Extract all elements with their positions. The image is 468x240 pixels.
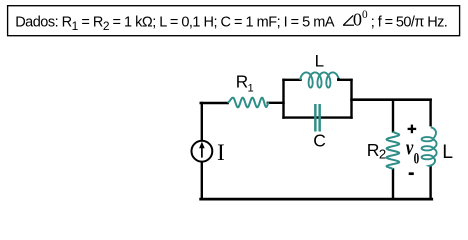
svg-text:L: L — [442, 141, 453, 163]
inductor L top coil — [300, 72, 339, 87]
wire R1 to box — [268, 102, 284, 104]
svg-text:L: L — [315, 52, 324, 71]
svg-text:Dados: R1 = R2 = 1 kΩ; L = 0,1: Dados: R1 = R2 = 1 kΩ; L = 0,1 H; C = 1 … — [15, 15, 335, 33]
svg-text:; f = 50/π Hz.: ; f = 50/π Hz. — [371, 15, 447, 31]
LC box bottom edge right segment — [321, 116, 352, 118]
capacitor C left plate — [314, 104, 317, 132]
wire box to right branch — [352, 98, 431, 101]
wire right branch top — [429, 100, 431, 126]
LC box left edge — [282, 80, 284, 118]
current source arrow — [201, 146, 203, 158]
svg-text:R1: R1 — [236, 71, 254, 94]
current source I circle — [192, 141, 213, 162]
angle symbol — [343, 15, 354, 25]
resistor R2 zigzag — [387, 132, 400, 170]
resistor R1 zigzag — [228, 98, 269, 108]
data box frame — [8, 6, 460, 36]
wire R2 branch bottom — [392, 169, 394, 199]
LC box bottom edge left segment — [284, 116, 318, 118]
wire left vertical — [201, 103, 203, 199]
wire top left horizontal — [201, 102, 228, 104]
svg-text:I: I — [217, 140, 225, 166]
wire right branch bottom — [429, 167, 431, 200]
capacitor C right plate — [318, 104, 321, 132]
wire bottom — [201, 198, 432, 201]
svg-text:C: C — [313, 131, 326, 151]
wire R2 branch top — [392, 100, 394, 132]
CIRCUIT — [201, 80, 432, 199]
LC box right edge — [350, 80, 352, 118]
LC box top edge right segment — [338, 79, 351, 81]
node top coil right junction dot — [337, 78, 340, 81]
LC box top edge left segment — [284, 79, 301, 81]
svg-text:R2: R2 — [367, 140, 386, 161]
label minus sign — [409, 172, 414, 175]
label plus sign — [408, 125, 417, 134]
inductor L right coil — [422, 127, 437, 166]
svg-text:0: 0 — [414, 150, 420, 167]
